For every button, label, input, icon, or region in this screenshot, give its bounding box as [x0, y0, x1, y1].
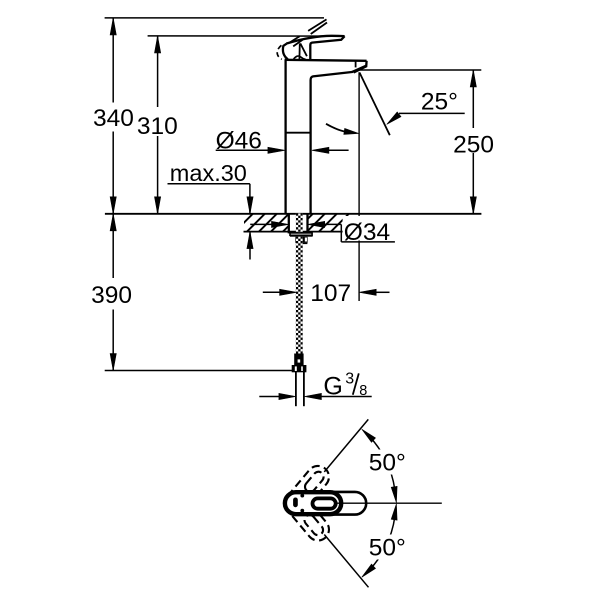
svg-text:Ø34: Ø34: [344, 219, 390, 246]
dimension 310 vertical line: [157, 36, 159, 107]
arc arrowheads: [362, 429, 376, 442]
dimension 250 vertical line: [472, 70, 474, 128]
lever blade underside and neck: [310, 36, 344, 59]
flange plate: [290, 235, 313, 237]
svg-text:390: 390: [91, 282, 132, 309]
handle grip (top view, thick): [285, 492, 341, 514]
dimension 390 vertical line: [112, 214, 114, 278]
dimension Ø46: [216, 149, 278, 151]
vertical reference line from spout: [358, 72, 360, 301]
spout face line: [355, 61, 357, 67]
dimension G3/8 arrows: [259, 396, 279, 398]
flow curve arrow: [326, 124, 345, 132]
washer under counter: [290, 233, 312, 235]
G3/8 connection nut: [292, 366, 306, 372]
counter hatching: [223, 212, 387, 232]
svg-text:107: 107: [310, 280, 351, 307]
dimension max.30 leader and arrows: [168, 183, 250, 185]
raised lever (dashed) pivot arc: [277, 45, 282, 59]
mounting shank right line: [306, 214, 308, 233]
svg-text:max.30: max.30: [170, 160, 247, 186]
spout right bevel: [365, 61, 368, 67]
dimension 340 vertical line: [112, 18, 114, 103]
water stream 25 deg line: [360, 73, 390, 136]
handle slot (top view): [313, 498, 336, 508]
svg-text:50°: 50°: [369, 449, 406, 476]
raised lever (dashed) top line: [290, 19, 327, 42]
spout underside and body right edge: [311, 72, 353, 214]
hose in front of nut: [296, 237, 303, 355]
svg-text:8: 8: [359, 383, 367, 399]
wire: 310 extension line: [148, 35, 345, 37]
white plate behind lower 50 label: [367, 535, 410, 560]
lower 50 deg boundary line: [324, 535, 368, 588]
hose crimp ferrule: [295, 354, 303, 366]
connection tube left line: [295, 372, 297, 407]
svg-text:Ø46: Ø46: [216, 128, 262, 155]
upper 50 deg dimension arc: [365, 432, 395, 490]
dimension Ø34: [250, 223, 274, 225]
svg-text:3: 3: [345, 370, 354, 387]
braided supply hose / threaded rod: [296, 213, 303, 354]
centerline of swing diagram: [337, 502, 441, 504]
mounting shank left line: [288, 214, 290, 233]
body joint line: [286, 132, 311, 134]
handle body outline (top view): [286, 492, 366, 515]
counter top surface line: [105, 213, 482, 215]
svg-text:50°: 50°: [369, 535, 406, 562]
svg-text:250: 250: [453, 131, 494, 158]
lever pivot cap: [283, 44, 288, 60]
svg-text:G: G: [323, 373, 342, 401]
grip detail dots: [301, 494, 304, 497]
wire: 390 extension line bottom: [105, 370, 293, 372]
white plate behind upper 50 label: [367, 450, 410, 475]
dimension 25 deg leader: [399, 112, 465, 114]
handle swing positions (dashed, rotated +50): [280, 488, 333, 545]
connection tube right line: [303, 372, 305, 407]
svg-text:310: 310: [137, 113, 178, 140]
upper 50 deg boundary line: [324, 419, 368, 472]
lever neck back edge: [298, 43, 300, 59]
dimension 107: [263, 291, 280, 293]
wire: 340 extension line top: [105, 17, 324, 19]
faucet top edge: [285, 60, 367, 61]
raised lever (dashed) bottom line: [293, 23, 327, 47]
lever blade top edge: [286, 36, 344, 44]
lever inner diagonal: [300, 43, 307, 56]
white gap for Ø34 label: [343, 216, 397, 241]
svg-text:340: 340: [93, 105, 134, 132]
handle swing positions (dashed, rotated -50): [280, 461, 333, 518]
mounting nut: [295, 237, 307, 243]
spout aerator wedge: [352, 65, 368, 74]
lever inner contour: [294, 56, 306, 59]
counter bottom line: [244, 231, 357, 233]
wire: 250 extension line from spout: [360, 69, 482, 71]
grip detail bar: [294, 498, 298, 507]
faucet body left edge: [284, 60, 286, 214]
svg-text:25°: 25°: [421, 89, 458, 116]
lower 50 deg dimension arc: [365, 516, 395, 574]
